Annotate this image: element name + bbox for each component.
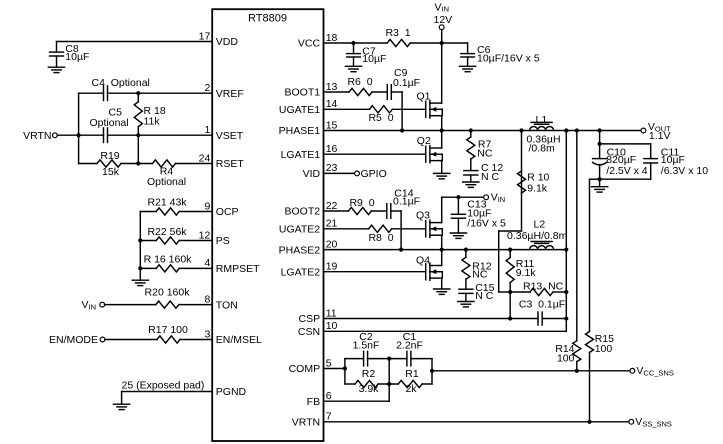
svg-text:10µF: 10µF bbox=[65, 51, 89, 63]
svg-text:6: 6 bbox=[326, 390, 332, 402]
svg-text:NC: NC bbox=[477, 148, 493, 160]
svg-text:100: 100 bbox=[557, 353, 575, 365]
svg-text:R19: R19 bbox=[100, 150, 119, 162]
svg-text:9: 9 bbox=[204, 200, 210, 212]
svg-text:R21 43k: R21 43k bbox=[147, 196, 187, 208]
svg-text:R6 0: R6 0 bbox=[347, 76, 372, 88]
svg-text:Optional: Optional bbox=[90, 117, 129, 129]
svg-text:R17 100: R17 100 bbox=[148, 324, 188, 336]
svg-text:GPIO: GPIO bbox=[361, 168, 387, 180]
svg-text:BOOT2: BOOT2 bbox=[285, 206, 321, 218]
svg-text:TON: TON bbox=[216, 299, 238, 311]
svg-text:R9 0: R9 0 bbox=[349, 197, 374, 209]
svg-text:Optional: Optional bbox=[147, 176, 186, 188]
svg-text:19: 19 bbox=[326, 261, 338, 273]
svg-text:LGATE2: LGATE2 bbox=[281, 266, 321, 278]
svg-text:100: 100 bbox=[595, 343, 613, 355]
svg-text:2k: 2k bbox=[405, 383, 417, 395]
svg-text:EN/MSEL: EN/MSEL bbox=[216, 334, 262, 346]
svg-text:R 16 160k: R 16 160k bbox=[144, 253, 193, 265]
svg-text:VDD: VDD bbox=[216, 36, 239, 48]
svg-text:1.5nF: 1.5nF bbox=[353, 340, 380, 352]
svg-text:FB: FB bbox=[307, 396, 320, 408]
svg-text:VCC: VCC bbox=[298, 38, 321, 50]
svg-text:11k: 11k bbox=[144, 116, 161, 128]
svg-text:RT8809: RT8809 bbox=[248, 12, 287, 24]
svg-text:N C: N C bbox=[481, 171, 500, 183]
svg-text:18: 18 bbox=[326, 32, 338, 44]
svg-text:14: 14 bbox=[326, 98, 338, 110]
svg-text:VREF: VREF bbox=[216, 88, 244, 100]
svg-text:Q4: Q4 bbox=[416, 254, 430, 266]
svg-text:Q2: Q2 bbox=[417, 135, 431, 147]
svg-text:/6.3V x 10: /6.3V x 10 bbox=[661, 165, 708, 177]
svg-text:C3 0.1µF: C3 0.1µF bbox=[519, 298, 565, 310]
svg-text:2: 2 bbox=[204, 82, 210, 94]
svg-text:12V: 12V bbox=[434, 14, 453, 26]
svg-text:EN/MODE: EN/MODE bbox=[49, 334, 98, 346]
svg-text:10: 10 bbox=[326, 320, 338, 332]
svg-text:9.1k: 9.1k bbox=[516, 267, 537, 279]
svg-text:R1: R1 bbox=[405, 368, 419, 380]
svg-text:0.1µF: 0.1µF bbox=[393, 196, 420, 208]
svg-text:10µF/16V x 5: 10µF/16V x 5 bbox=[477, 53, 540, 65]
svg-text:9.1k: 9.1k bbox=[527, 182, 548, 194]
svg-text:C4 Optional: C4 Optional bbox=[92, 77, 150, 89]
svg-text:RSET: RSET bbox=[216, 158, 245, 170]
svg-text:16: 16 bbox=[326, 143, 338, 155]
svg-text:24: 24 bbox=[199, 152, 211, 164]
svg-text:1.1V: 1.1V bbox=[649, 130, 671, 142]
svg-text:5: 5 bbox=[326, 357, 332, 369]
svg-text:LGATE1: LGATE1 bbox=[281, 149, 321, 161]
svg-text:/16V x 5: /16V x 5 bbox=[467, 218, 506, 230]
svg-text:NC: NC bbox=[472, 269, 488, 281]
svg-text:15k: 15k bbox=[102, 166, 120, 178]
svg-text:PHASE2: PHASE2 bbox=[279, 244, 321, 256]
svg-text:Q3: Q3 bbox=[416, 209, 430, 221]
svg-text:0.1µF: 0.1µF bbox=[393, 77, 420, 89]
svg-text:/0.8m: /0.8m bbox=[529, 143, 556, 155]
svg-text:15: 15 bbox=[326, 119, 338, 131]
svg-text:R22 56k: R22 56k bbox=[147, 226, 187, 238]
svg-text:N C: N C bbox=[475, 290, 494, 302]
svg-text:UGATE1: UGATE1 bbox=[279, 104, 320, 116]
svg-text:UGATE2: UGATE2 bbox=[279, 224, 320, 236]
svg-text:RMPSET: RMPSET bbox=[216, 263, 260, 275]
svg-text:VID: VID bbox=[303, 168, 321, 180]
svg-text:Q1: Q1 bbox=[417, 91, 431, 103]
svg-text:OCP: OCP bbox=[216, 206, 239, 218]
svg-text:PGND: PGND bbox=[216, 386, 247, 398]
svg-text:21: 21 bbox=[326, 218, 338, 230]
svg-text:COMP: COMP bbox=[289, 363, 321, 375]
svg-text:R3 1: R3 1 bbox=[385, 27, 410, 39]
svg-text:20: 20 bbox=[326, 238, 338, 250]
svg-text:17: 17 bbox=[199, 30, 211, 42]
svg-text:R20 160k: R20 160k bbox=[145, 287, 191, 299]
svg-text:R5 0: R5 0 bbox=[368, 112, 393, 124]
svg-text:CSN: CSN bbox=[298, 326, 320, 338]
svg-text:/2.5V x 4: /2.5V x 4 bbox=[606, 165, 648, 177]
svg-text:VRTN: VRTN bbox=[292, 417, 320, 429]
svg-text:VRTN: VRTN bbox=[23, 130, 51, 142]
svg-text:0.36µH/0.8m: 0.36µH/0.8m bbox=[507, 230, 568, 242]
svg-text:L2: L2 bbox=[534, 218, 546, 230]
svg-text:4: 4 bbox=[204, 257, 210, 269]
svg-text:1: 1 bbox=[204, 124, 210, 136]
svg-text:R13 NC: R13 NC bbox=[523, 280, 564, 292]
svg-text:VSET: VSET bbox=[216, 130, 244, 142]
svg-text:3: 3 bbox=[204, 328, 210, 340]
svg-text:22: 22 bbox=[326, 200, 338, 212]
svg-text:7: 7 bbox=[326, 411, 332, 423]
svg-text:PHASE1: PHASE1 bbox=[279, 125, 321, 137]
svg-text:R2: R2 bbox=[362, 368, 376, 380]
svg-text:BOOT1: BOOT1 bbox=[285, 87, 321, 99]
svg-text:CSP: CSP bbox=[299, 313, 321, 325]
svg-text:11: 11 bbox=[326, 307, 337, 319]
svg-text:12: 12 bbox=[199, 229, 211, 241]
svg-text:23: 23 bbox=[326, 162, 338, 174]
svg-text:R8 0: R8 0 bbox=[368, 232, 393, 244]
svg-text:2.2nF: 2.2nF bbox=[396, 340, 423, 352]
svg-text:25 (Exposed pad): 25 (Exposed pad) bbox=[122, 380, 205, 392]
svg-text:8: 8 bbox=[204, 293, 210, 305]
svg-text:3.9k: 3.9k bbox=[359, 383, 380, 395]
svg-text:PS: PS bbox=[216, 235, 230, 247]
svg-text:10µF: 10µF bbox=[362, 53, 386, 65]
svg-text:13: 13 bbox=[326, 81, 338, 93]
